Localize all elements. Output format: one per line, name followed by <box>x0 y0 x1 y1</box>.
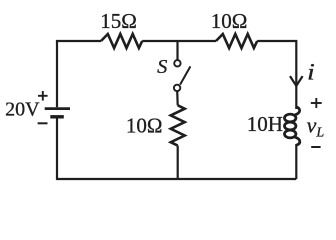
wire top-right segment <box>257 41 296 109</box>
inductor plus <box>311 98 322 108</box>
svg-text:10Ω: 10Ω <box>211 9 248 33</box>
resistor R3 10ohm zigzag vertical <box>171 105 185 145</box>
battery V1 20V plates <box>45 109 70 117</box>
resistor R1 15ohm zigzag <box>101 34 142 48</box>
inductor L1 coil <box>285 107 300 145</box>
svg-text:S: S <box>157 56 167 78</box>
wire right lower segment <box>295 144 297 179</box>
wire top-middle segment <box>142 40 216 42</box>
wire resistor R3 bottom lead <box>177 146 179 179</box>
switch S terminals <box>174 60 181 91</box>
switch S blade <box>180 66 190 84</box>
current arrow i <box>290 76 303 86</box>
wire bottom segment <box>57 118 296 179</box>
battery plus <box>38 91 48 101</box>
wire left upper segment (battery top lead) <box>56 41 58 107</box>
svg-text:20V: 20V <box>5 99 40 121</box>
svg-text:vL: vL <box>307 113 325 141</box>
svg-text:10Ω: 10Ω <box>126 114 163 138</box>
inductor minus <box>311 146 320 148</box>
svg-text:15Ω: 15Ω <box>100 9 137 33</box>
wire switch top lead <box>176 41 178 60</box>
wire top-left segment <box>57 41 101 42</box>
wire switch bottom lead <box>176 91 179 105</box>
svg-text:10H: 10H <box>247 112 283 136</box>
battery minus <box>38 122 48 124</box>
svg-text:i: i <box>307 59 315 85</box>
resistor R2 10ohm zigzag top <box>216 34 257 48</box>
